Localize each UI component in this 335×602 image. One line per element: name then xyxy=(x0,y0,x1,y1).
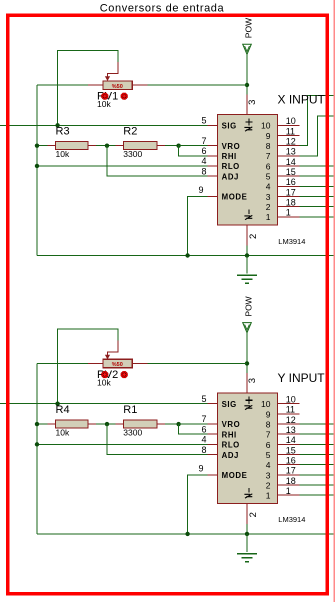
svg-text:R2: R2 xyxy=(123,125,137,137)
svg-text:6: 6 xyxy=(266,440,271,450)
resistor R4 xyxy=(37,420,107,428)
wire to U1 pin 8 ADJ (top) xyxy=(107,146,217,177)
svg-text:4: 4 xyxy=(266,460,271,470)
junction rail/R4 (bottom) xyxy=(35,422,39,426)
op-amp/driver U1 LM3914 (top) xyxy=(217,115,277,226)
svg-text:MODE: MODE xyxy=(222,471,248,480)
svg-text:X INPUT: X INPUT xyxy=(278,93,326,107)
wire rail to U1 pin 4 RLO (top) xyxy=(37,165,217,167)
marker dots RV2 xyxy=(101,371,128,378)
svg-text:7: 7 xyxy=(266,430,271,440)
junction R1/VRO/RHI (bottom) xyxy=(176,422,180,426)
svg-text:VRO: VRO xyxy=(222,142,241,151)
svg-text:11: 11 xyxy=(286,126,295,136)
wire/pin output 12 (top) xyxy=(277,96,335,146)
svg-text:RLO: RLO xyxy=(222,162,240,171)
svg-text:2: 2 xyxy=(266,480,271,490)
svg-text:8: 8 xyxy=(201,166,206,176)
svg-text:10: 10 xyxy=(286,395,296,405)
svg-text:13: 13 xyxy=(286,147,296,157)
wire to U1 pin 6 RHI (bottom) xyxy=(179,424,218,434)
wire/pin output 1 (top) xyxy=(277,216,335,218)
wire RV1 wiper to SIG net (top) xyxy=(58,51,118,126)
wire left rail (top) xyxy=(36,85,38,256)
svg-text:9: 9 xyxy=(266,409,271,419)
svg-text:11: 11 xyxy=(286,405,295,415)
svg-text:1: 1 xyxy=(266,212,271,222)
resistor R3 xyxy=(37,142,107,150)
wire/pin output 11 (bottom) xyxy=(277,413,299,415)
svg-text:3: 3 xyxy=(266,192,271,202)
wire POW to U1 pin 3 (bottom) xyxy=(246,333,248,393)
svg-text:3: 3 xyxy=(266,470,271,480)
svg-text:5: 5 xyxy=(201,116,206,126)
svg-text:1: 1 xyxy=(286,208,291,218)
power terminal POW (top) xyxy=(243,18,254,54)
wire to U1 pin 8 ADJ (bottom) xyxy=(107,424,217,455)
svg-text:10k: 10k xyxy=(97,99,111,109)
wire U1 pin 2 to ground (top) xyxy=(246,225,248,255)
wire to U1 pin 7 VRO (bottom) xyxy=(179,423,218,425)
wire/pin output 15 (bottom) xyxy=(277,454,335,456)
junction MODE/ground (top) xyxy=(185,253,189,257)
svg-text:SIG: SIG xyxy=(222,122,237,131)
svg-text:9: 9 xyxy=(266,131,271,141)
wire left rail (bottom) xyxy=(36,363,38,534)
wire RV1 left terminal to rail (top) xyxy=(37,84,103,86)
wire POW to U1 pin 3 (top) xyxy=(246,54,248,114)
junction wiper/SIG (bottom) xyxy=(55,402,59,406)
wire/pin output 18 (bottom) xyxy=(277,484,335,486)
svg-text:10: 10 xyxy=(261,399,271,409)
svg-text:9: 9 xyxy=(198,463,203,473)
ground symbol (top) xyxy=(237,256,257,284)
wire/pin output 14 (top) xyxy=(277,165,335,167)
resistor R2 xyxy=(107,142,179,150)
svg-text:10k: 10k xyxy=(97,377,111,387)
svg-text:ADJ: ADJ xyxy=(222,451,239,460)
svg-text:4: 4 xyxy=(266,182,271,192)
wire/pin output 17 (bottom) xyxy=(277,474,335,476)
svg-text:10: 10 xyxy=(261,121,271,131)
junction R4/R1/ADJ (bottom) xyxy=(105,422,109,426)
power terminal POW (bottom) xyxy=(243,296,254,332)
svg-text:18: 18 xyxy=(286,476,296,486)
svg-text:15: 15 xyxy=(286,445,296,455)
wire U1 pin 9 MODE to ground (top) xyxy=(188,196,218,255)
junction pin2/ground (top) xyxy=(245,253,249,257)
svg-text:Y INPUT: Y INPUT xyxy=(278,371,326,385)
junction R3/R2/ADJ (top) xyxy=(105,143,109,147)
wire/pin output 16 (bottom) xyxy=(277,464,335,466)
svg-text:RLO: RLO xyxy=(222,441,240,450)
svg-text:16: 16 xyxy=(286,177,296,187)
wire/pin output 16 (top) xyxy=(277,185,335,187)
wire RV2 wiper to SIG net (bottom) xyxy=(58,329,118,404)
svg-text:3: 3 xyxy=(247,378,258,383)
wire/pin output 18 (top) xyxy=(277,206,335,208)
wire POW node to RV1 right terminal (top) xyxy=(132,84,247,86)
svg-text:RHI: RHI xyxy=(222,152,237,161)
wire U1 pin 2 to ground (bottom) xyxy=(246,504,248,534)
svg-text:1: 1 xyxy=(286,486,291,496)
wire/pin output 11 (top) xyxy=(277,134,299,136)
svg-text:17: 17 xyxy=(286,466,296,476)
op-amp/driver U1 LM3914 (bottom) xyxy=(217,393,277,504)
svg-text:R4: R4 xyxy=(56,404,70,416)
potentiometer RV1 xyxy=(103,81,132,90)
svg-text:4: 4 xyxy=(201,435,206,445)
svg-text:5: 5 xyxy=(266,450,271,460)
svg-text:17: 17 xyxy=(286,187,296,197)
pin numbers right internal 10..1 (top) xyxy=(261,121,271,223)
wire/pin output 1 (bottom) xyxy=(277,494,335,496)
svg-text:14: 14 xyxy=(286,435,296,445)
pin numbers left 5,7,6,4,8,9 (top) xyxy=(198,116,206,195)
wire/pin output 10 (bottom) xyxy=(277,403,299,405)
wire SIG net to U1 pin 5 (bottom) xyxy=(0,403,217,405)
svg-text:2: 2 xyxy=(248,234,259,239)
wire ground net (bottom) xyxy=(37,533,335,535)
svg-text:6: 6 xyxy=(201,146,206,156)
junction rail/RLO (bottom) xyxy=(35,442,39,446)
junction wiper/SIG (top) xyxy=(55,123,59,127)
resistor R1 xyxy=(107,420,179,428)
svg-text:16: 16 xyxy=(286,456,296,466)
wire/pin output 14 (bottom) xyxy=(277,443,335,445)
svg-text:8: 8 xyxy=(201,445,206,455)
wire ground net (top) xyxy=(37,255,335,257)
svg-text:14: 14 xyxy=(286,157,296,167)
svg-text:6: 6 xyxy=(201,424,206,434)
svg-text:Conversors de entrada: Conversors de entrada xyxy=(100,3,225,15)
wire/pin output 17 (top) xyxy=(277,195,335,197)
svg-text:R3: R3 xyxy=(56,125,70,137)
svg-text:MODE: MODE xyxy=(222,193,248,202)
svg-text:R1: R1 xyxy=(123,404,137,416)
svg-text:LM3914: LM3914 xyxy=(278,237,305,246)
svg-text:13: 13 xyxy=(286,425,296,435)
svg-text:10k: 10k xyxy=(56,149,70,159)
svg-text:7: 7 xyxy=(201,414,206,424)
wire/pin output 13 (bottom) xyxy=(277,433,335,435)
svg-text:5: 5 xyxy=(201,394,206,404)
svg-text:RHI: RHI xyxy=(222,430,237,439)
ground symbol (bottom) xyxy=(237,534,257,562)
svg-text:3300: 3300 xyxy=(123,428,142,438)
junction POW node (top) xyxy=(245,83,249,87)
svg-text:15: 15 xyxy=(286,167,296,177)
svg-text:8: 8 xyxy=(266,141,271,151)
svg-text:7: 7 xyxy=(201,136,206,146)
junction rail/R3 (top) xyxy=(35,143,39,147)
svg-text:%50: %50 xyxy=(112,84,123,90)
svg-text:5: 5 xyxy=(266,172,271,182)
wire U1 pin 9 MODE to ground (bottom) xyxy=(188,475,218,534)
svg-text:3: 3 xyxy=(247,100,258,105)
svg-text:9: 9 xyxy=(198,185,203,195)
pin numbers left 5,7,6,4,8,9 (bottom) xyxy=(198,394,206,473)
svg-text:10k: 10k xyxy=(56,428,70,438)
svg-text:1: 1 xyxy=(266,491,271,501)
svg-text:12: 12 xyxy=(286,415,296,425)
svg-text:3300: 3300 xyxy=(123,149,142,159)
svg-text:2: 2 xyxy=(266,202,271,212)
junction POW node (bottom) xyxy=(245,361,249,365)
svg-text:POW: POW xyxy=(243,296,253,316)
svg-text:10: 10 xyxy=(286,116,296,126)
junction MODE/ground (bottom) xyxy=(185,532,189,536)
svg-text:2: 2 xyxy=(248,512,259,517)
svg-text:POW: POW xyxy=(243,18,253,38)
wire to U1 pin 7 VRO (top) xyxy=(179,145,218,147)
wire to U1 pin 6 RHI (top) xyxy=(179,146,218,156)
wire/pin output 10 (top) xyxy=(277,124,299,126)
svg-text:6: 6 xyxy=(266,161,271,171)
junction R2/VRO/RHI (top) xyxy=(176,143,180,147)
pin numbers right internal 10..1 (bottom) xyxy=(261,399,271,501)
wire/pin output 15 (top) xyxy=(277,175,335,177)
svg-text:VRO: VRO xyxy=(222,420,241,429)
wire POW node to RV2 right terminal (bottom) xyxy=(132,362,247,364)
wire/pin output 13 (top) xyxy=(277,116,335,156)
svg-text:7: 7 xyxy=(266,151,271,161)
potentiometer RV2 xyxy=(103,359,132,368)
svg-text:4: 4 xyxy=(201,156,206,166)
svg-text:%50: %50 xyxy=(112,362,123,368)
junction pin2/ground (bottom) xyxy=(245,532,249,536)
svg-text:8: 8 xyxy=(266,419,271,429)
svg-text:18: 18 xyxy=(286,197,296,207)
svg-text:12: 12 xyxy=(286,136,296,146)
marker dots RV1 xyxy=(101,93,128,100)
wire RV2 left terminal to rail (bottom) xyxy=(37,362,103,364)
svg-text:ADJ: ADJ xyxy=(222,172,239,181)
wire/pin output 12 (bottom) xyxy=(277,423,335,425)
svg-text:LM3914: LM3914 xyxy=(278,515,305,524)
wire rail to U1 pin 4 RLO (bottom) xyxy=(37,443,217,445)
junction rail/RLO (top) xyxy=(35,164,39,168)
svg-text:SIG: SIG xyxy=(222,400,237,409)
wire SIG net to U1 pin 5 (top) xyxy=(0,124,217,126)
